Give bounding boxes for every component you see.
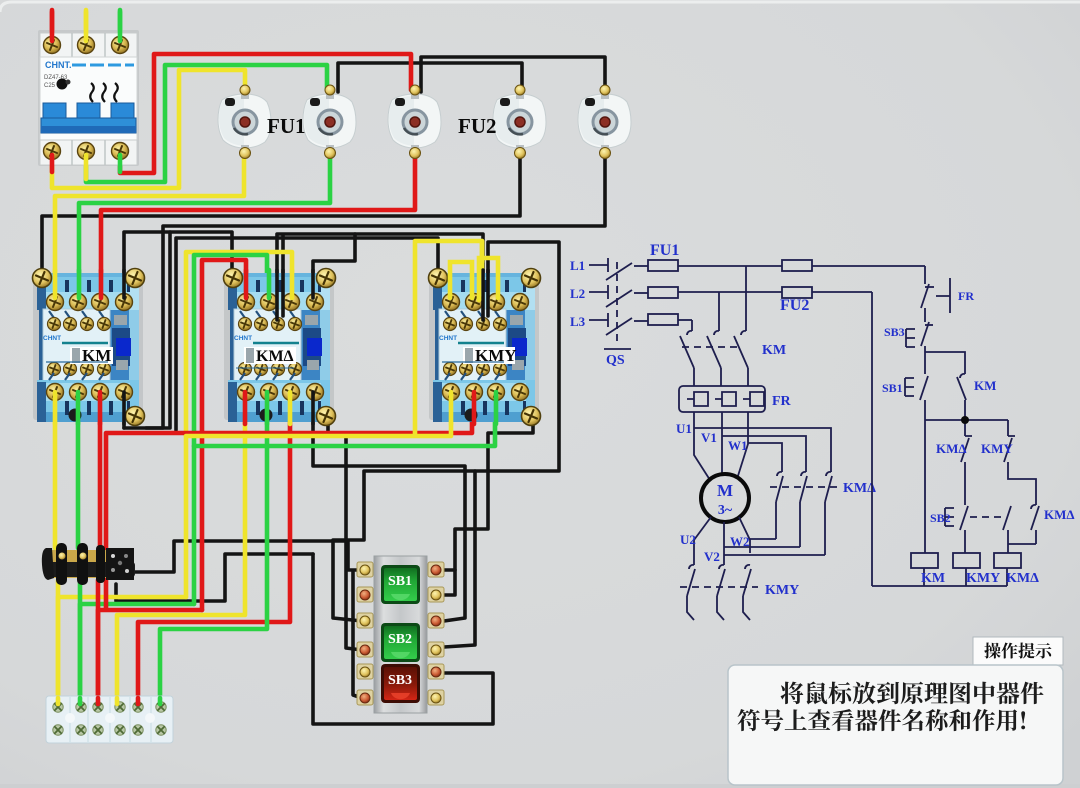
svg-text:L2: L2 bbox=[570, 286, 585, 301]
svg-text:KMΔ: KMΔ bbox=[256, 348, 294, 365]
svg-text:W1: W1 bbox=[728, 438, 748, 453]
svg-text:C25: C25 bbox=[44, 83, 56, 89]
svg-text:3~: 3~ bbox=[718, 503, 733, 518]
svg-text:M: M bbox=[717, 481, 733, 500]
svg-text:V1: V1 bbox=[701, 430, 717, 445]
svg-text:SB2: SB2 bbox=[930, 511, 951, 525]
svg-text:CHNT: CHNT bbox=[43, 335, 61, 342]
svg-text:FU2: FU2 bbox=[458, 114, 497, 138]
svg-text:SB2: SB2 bbox=[388, 632, 412, 647]
svg-text:KMY: KMY bbox=[981, 441, 1013, 456]
svg-text:U1: U1 bbox=[676, 421, 692, 436]
svg-text:L3: L3 bbox=[570, 314, 586, 329]
svg-text:FR: FR bbox=[958, 289, 974, 303]
svg-text:KM: KM bbox=[921, 571, 945, 586]
svg-text:W2: W2 bbox=[730, 534, 750, 549]
svg-text:SB1: SB1 bbox=[388, 574, 412, 589]
svg-text:KMY: KMY bbox=[765, 583, 799, 598]
svg-text:L1: L1 bbox=[570, 258, 585, 273]
svg-text:U2: U2 bbox=[680, 532, 696, 547]
svg-text:KM: KM bbox=[974, 378, 996, 393]
svg-text:KMΔ: KMΔ bbox=[936, 441, 967, 456]
svg-text:V2: V2 bbox=[704, 549, 720, 564]
svg-text:KMY: KMY bbox=[966, 571, 1000, 586]
svg-text:QS: QS bbox=[606, 353, 625, 368]
svg-text:SB1: SB1 bbox=[882, 381, 903, 395]
svg-text:CHNT.: CHNT. bbox=[45, 60, 72, 70]
svg-text:KM: KM bbox=[762, 343, 786, 358]
svg-text:CHNT: CHNT bbox=[439, 335, 457, 342]
svg-text:SB3: SB3 bbox=[884, 325, 905, 339]
svg-text:CHNT: CHNT bbox=[234, 335, 252, 342]
svg-text:FU1: FU1 bbox=[267, 114, 306, 138]
svg-text:KMΔ: KMΔ bbox=[1044, 507, 1075, 522]
svg-text:KMΔ: KMΔ bbox=[1006, 571, 1039, 586]
svg-text:FU2: FU2 bbox=[780, 297, 809, 314]
svg-text:FU1: FU1 bbox=[650, 242, 679, 259]
svg-text:SB3: SB3 bbox=[388, 673, 412, 688]
svg-text:FR: FR bbox=[772, 394, 792, 409]
